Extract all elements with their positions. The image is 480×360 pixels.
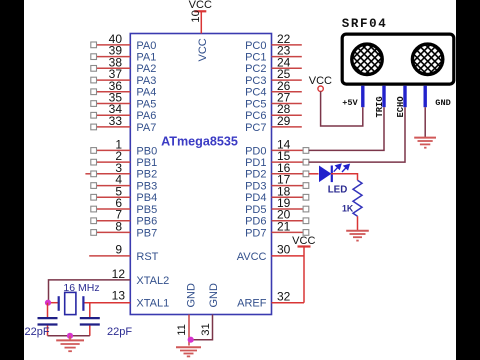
pin PB2 (pin 3) wire and terminal: [85, 161, 157, 181]
SRF04 right transducer: [412, 44, 442, 74]
pin PD7 (pin 21) wire and terminal: [245, 219, 309, 239]
pin GND (pin 31) wire down and across: [189, 315, 213, 340]
wire crystal left junction to crystal plate: [49, 302, 59, 304]
svg-text:VCC: VCC: [197, 38, 209, 61]
svg-text:11: 11: [176, 324, 188, 336]
svg-text:ATmega8535: ATmega8535: [161, 134, 238, 148]
svg-text:AVCC: AVCC: [237, 251, 267, 263]
pin AVCC (pin 30) wire: [237, 243, 304, 263]
ground symbol below resistor: [346, 231, 369, 241]
ground symbol below IC: [176, 347, 201, 356]
pin PD0 (pin 14) wire and terminal: [245, 137, 309, 157]
pin PD6 (pin 20) wire and terminal: [245, 208, 309, 228]
svg-text:PA4: PA4: [136, 87, 156, 99]
crystal X1 16 MHz: [59, 282, 100, 314]
resistor R1 1K: [342, 180, 362, 216]
svg-text:LED: LED: [328, 184, 348, 195]
svg-text:31: 31: [200, 323, 212, 336]
pin PC6 (pin 28) wire: [245, 102, 302, 122]
pin PB6 (pin 7) wire and terminal: [91, 208, 157, 228]
wire LED to resistor: [331, 174, 358, 180]
svg-text:PB7: PB7: [136, 227, 157, 239]
svg-text:PC7: PC7: [245, 122, 266, 134]
svg-text:PB2: PB2: [136, 169, 157, 181]
op IC U1 ATmega8535 body: [130, 34, 271, 315]
svg-text:XTAL2: XTAL2: [136, 275, 169, 287]
pin XTAL1 (pin 13) wire: [83, 288, 169, 309]
capacitor C1 22pF (left): [25, 303, 58, 338]
svg-text:PD0: PD0: [245, 145, 266, 157]
svg-text:PB0: PB0: [136, 145, 157, 157]
svg-text:30: 30: [277, 243, 291, 257]
svg-text:PC2: PC2: [245, 63, 266, 75]
pin PB7 (pin 8) wire and terminal: [91, 219, 157, 239]
SRF04 pin GND: [425, 86, 451, 109]
pin PC3 (pin 25) wire: [245, 67, 302, 87]
svg-text:PA5: PA5: [136, 98, 156, 110]
wire resistor to ground: [357, 216, 359, 230]
wire VCC to +5V pin: [321, 91, 363, 126]
wire PD1 to ECHO: [309, 107, 405, 162]
pin XTAL2 (pin 12) and wire to crystal: [49, 267, 170, 303]
wire pin10 stem: [200, 11, 202, 33]
svg-text:PB3: PB3: [136, 181, 157, 193]
wire capacitor commons: [48, 335, 90, 337]
svg-text:29: 29: [277, 114, 291, 128]
svg-text:21: 21: [277, 219, 291, 233]
svg-text:VCC: VCC: [292, 235, 315, 247]
svg-text:GND: GND: [435, 98, 450, 108]
wire SRF04 GND down: [424, 107, 426, 137]
svg-text:PC0: PC0: [245, 40, 266, 52]
right black bar: [456, 0, 480, 360]
svg-text:VCC: VCC: [309, 75, 332, 87]
pin PC0 (pin 22) wire: [245, 32, 302, 52]
svg-text:PA0: PA0: [136, 40, 156, 52]
pin PC7 (pin 29) wire: [245, 114, 302, 134]
pin PC1 (pin 23) wire: [245, 44, 302, 64]
SRF04 pin ECHO: [396, 86, 406, 118]
svg-text:PB1: PB1: [136, 157, 157, 169]
svg-text:+5V: +5V: [342, 98, 358, 108]
svg-text:PA1: PA1: [136, 52, 156, 64]
SRF04 pin TRIG: [375, 86, 385, 118]
svg-text:PD7: PD7: [245, 227, 266, 239]
pin PD1 (pin 15) wire and terminal: [245, 149, 309, 169]
SRF04 pin +5V: [342, 86, 363, 109]
svg-text:PC6: PC6: [245, 110, 266, 122]
pin PD5 (pin 19) wire and terminal: [245, 196, 309, 216]
svg-text:PA3: PA3: [136, 75, 156, 87]
svg-text:PD5: PD5: [245, 204, 266, 216]
svg-text:AREF: AREF: [237, 298, 267, 310]
pin RST (pin 9): [89, 242, 158, 262]
pin PB1 (pin 2) wire and terminal: [91, 149, 157, 169]
svg-text:PB5: PB5: [136, 204, 157, 216]
junction node capacitors/ground: [67, 333, 73, 339]
junction node XTAL2/left capacitor: [45, 300, 51, 306]
svg-text:PA6: PA6: [136, 110, 156, 122]
svg-text:12: 12: [112, 267, 126, 281]
svg-text:VCC: VCC: [189, 0, 212, 11]
svg-text:33: 33: [109, 114, 123, 128]
wire VCC to AVCC and AREF: [303, 247, 305, 303]
pin PA2 (pin 38) wire and terminal: [91, 55, 157, 75]
svg-text:SRF04: SRF04: [342, 17, 388, 31]
pin PA1 (pin 39) wire and terminal: [91, 44, 157, 64]
pin PD2 (pin 16) wire and terminal: [245, 161, 309, 181]
pin PA5 (pin 35) wire and terminal: [91, 91, 157, 111]
svg-text:22pF: 22pF: [25, 326, 50, 338]
svg-text:PA2: PA2: [136, 63, 156, 75]
svg-text:13: 13: [112, 288, 126, 302]
junction dot pins 11/31: [188, 337, 194, 343]
power VCC terminal (SRF04 supply): [309, 75, 332, 92]
svg-text:10: 10: [190, 10, 202, 23]
svg-text:PC5: PC5: [245, 98, 266, 110]
svg-text:PB4: PB4: [136, 192, 157, 204]
pin GND (pin 11) wire down: [176, 315, 189, 346]
wire PD2 to LED: [309, 173, 319, 175]
pin PA0 (pin 40) wire and terminal: [91, 32, 157, 52]
svg-text:XTAL1: XTAL1: [136, 298, 169, 310]
svg-text:GND: GND: [208, 283, 220, 308]
pin PA6 (pin 34) wire and terminal: [91, 102, 157, 122]
ground symbol below crystal: [56, 336, 84, 351]
pin PB3 (pin 4) wire and terminal: [91, 173, 157, 193]
power VCC terminal (top, pin 10): [189, 0, 212, 33]
svg-text:PD6: PD6: [245, 216, 266, 228]
svg-text:9: 9: [115, 242, 122, 256]
SRF04 module body: [342, 34, 454, 84]
svg-text:PB6: PB6: [136, 216, 157, 228]
svg-text:PC1: PC1: [245, 52, 266, 64]
pin PB4 (pin 5) wire and terminal: [91, 184, 157, 204]
svg-text:PC3: PC3: [245, 75, 266, 87]
svg-text:PA7: PA7: [136, 122, 156, 134]
pin PD4 (pin 18) wire and terminal: [245, 184, 309, 204]
svg-text:GND: GND: [185, 283, 197, 308]
svg-text:RST: RST: [136, 251, 158, 263]
pin PD3 (pin 17) wire and terminal: [245, 173, 309, 193]
pin PC2 (pin 24) wire: [245, 55, 302, 75]
svg-text:PD2: PD2: [245, 169, 266, 181]
svg-text:22pF: 22pF: [107, 326, 132, 338]
svg-text:PD3: PD3: [245, 181, 266, 193]
svg-text:8: 8: [115, 219, 122, 233]
pin PA3 (pin 37) wire and terminal: [91, 67, 157, 87]
LED D1: [319, 164, 349, 195]
svg-text:32: 32: [277, 289, 291, 303]
ground symbol below SRF04: [414, 138, 436, 148]
power VCC terminal (AVCC/AREF): [292, 235, 315, 303]
left black bar: [0, 0, 24, 360]
LED arrows: [334, 164, 349, 172]
pin PC4 (pin 26) wire: [245, 79, 302, 99]
wire PD0 to TRIG: [309, 107, 384, 150]
pin PB5 (pin 6) wire and terminal: [91, 196, 157, 216]
svg-text:PD4: PD4: [245, 192, 266, 204]
pin PB0 (pin 1) wire and terminal: [91, 137, 157, 157]
svg-text:PD1: PD1: [245, 157, 266, 169]
svg-text:1K: 1K: [342, 203, 354, 213]
pin AREF (pin 32) wire: [237, 289, 304, 309]
svg-text:PC4: PC4: [245, 87, 266, 99]
pin PC5 (pin 27) wire: [245, 91, 302, 111]
capacitor C2 22pF (right): [80, 303, 133, 338]
SRF04 left transducer: [352, 44, 382, 74]
svg-text:16 MHz: 16 MHz: [63, 282, 99, 294]
pin PA7 (pin 33) wire and terminal: [91, 114, 157, 134]
pin PA4 (pin 36) wire and terminal: [91, 79, 157, 99]
